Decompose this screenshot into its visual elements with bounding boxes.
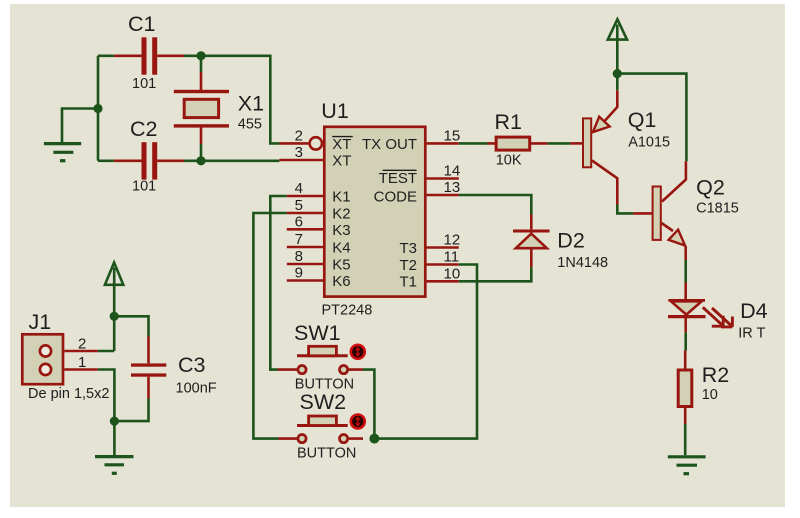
crystal X1 xyxy=(174,72,229,144)
svg-text:10K: 10K xyxy=(496,153,522,169)
wire Q2 emitter to D4 xyxy=(684,260,687,283)
svg-text:K2: K2 xyxy=(332,206,350,223)
junction node C1/X1 top xyxy=(196,51,205,60)
svg-text:10: 10 xyxy=(444,265,461,282)
svg-text:455: 455 xyxy=(238,116,262,132)
svg-text:10: 10 xyxy=(702,387,718,403)
svg-text:TX OUT: TX OUT xyxy=(362,136,417,153)
svg-text:K3: K3 xyxy=(332,222,350,239)
junction node VCC J1 xyxy=(110,312,119,321)
svg-text:8: 8 xyxy=(295,248,303,265)
wire R2 to ground right xyxy=(684,424,687,455)
svg-text:D4: D4 xyxy=(740,299,768,323)
svg-text:7: 7 xyxy=(295,231,303,248)
svg-text:T3: T3 xyxy=(399,240,417,257)
junction node SW2 right xyxy=(369,434,379,444)
svg-text:K1: K1 xyxy=(332,189,350,206)
junction node ground left xyxy=(93,104,102,113)
wire VCC junction to Q2 collector xyxy=(617,74,686,162)
wire R1 to Q1 base xyxy=(547,142,570,145)
wire to C1 left xyxy=(98,54,114,57)
svg-text:Q1: Q1 xyxy=(628,108,657,132)
svg-text:15: 15 xyxy=(444,127,461,144)
svg-text:CODE: CODE xyxy=(374,189,417,206)
svg-text:T2: T2 xyxy=(399,257,417,274)
svg-text:101: 101 xyxy=(132,179,156,195)
svg-text:SW1: SW1 xyxy=(294,321,341,345)
svg-text:IR T: IR T xyxy=(738,325,765,341)
wire D2 bottom to U1 pin 10 xyxy=(459,267,532,281)
svg-text:C2: C2 xyxy=(130,117,157,141)
LED D4 IR xyxy=(668,283,732,333)
wire ground-net left vertical xyxy=(97,56,100,161)
svg-text:11: 11 xyxy=(444,249,460,266)
svg-text:5: 5 xyxy=(295,197,303,214)
connector J1 xyxy=(22,334,98,384)
U1 pin numbers xyxy=(295,127,461,282)
wire C3 bottom to ground junction xyxy=(114,399,148,422)
wire J1 pin 2 green xyxy=(98,350,114,353)
svg-text:2: 2 xyxy=(295,127,303,144)
wire SW2 junction to U1 pin 11 xyxy=(374,265,477,439)
wire J1 pin 1 to ground junction xyxy=(98,370,115,422)
transistor Q2 C1815 NPN xyxy=(633,161,686,260)
wire CODE pin 13 to D2 top xyxy=(459,195,532,215)
svg-text:U1: U1 xyxy=(321,99,348,123)
svg-text:101: 101 xyxy=(132,76,156,92)
ground symbol left xyxy=(44,144,81,161)
wire VCC junction to Q1 emitter xyxy=(616,74,619,91)
svg-text:6: 6 xyxy=(295,213,303,230)
U1 pin names xyxy=(332,136,417,291)
svg-text:XT: XT xyxy=(332,153,351,170)
wire X1 top stub xyxy=(200,56,203,72)
svg-text:C1: C1 xyxy=(128,12,155,36)
svg-text:1N4148: 1N4148 xyxy=(557,255,608,271)
wire VCC2 junction to C3 top xyxy=(114,316,148,336)
svg-text:SW2: SW2 xyxy=(300,390,347,414)
capacitor C2 xyxy=(114,142,184,179)
diode D2 1N4148 xyxy=(513,215,550,268)
switch SW1 BUTTON xyxy=(278,345,365,374)
junction node C2/X1 bottom xyxy=(196,156,205,165)
svg-text:4: 4 xyxy=(295,180,303,197)
svg-text:C1815: C1815 xyxy=(696,201,739,217)
svg-text:R2: R2 xyxy=(702,363,729,387)
svg-text:J1: J1 xyxy=(29,310,52,334)
svg-text:3: 3 xyxy=(295,144,303,161)
svg-text:100nF: 100nF xyxy=(176,380,217,396)
wire to C2 left xyxy=(98,160,114,163)
svg-text:K4: K4 xyxy=(332,240,350,257)
wire SW1 right down to junction xyxy=(363,370,374,439)
wire D4 to R2 xyxy=(684,332,687,350)
svg-text:X1: X1 xyxy=(238,92,264,116)
resistor R1 xyxy=(488,137,548,150)
wire node OSC1: C1 right to U1 pin 2 xyxy=(184,56,279,144)
IC U1 PT2248 xyxy=(279,127,458,297)
ground symbol right xyxy=(668,457,706,474)
wire K1 to SW1 xyxy=(270,196,287,370)
svg-text:1: 1 xyxy=(78,354,86,371)
svg-text:2: 2 xyxy=(78,335,86,352)
wire VCC2 arrow to junction and J1 pin 2 xyxy=(113,268,116,352)
wire node OSC2: C2 right to U1 pin 3 xyxy=(184,160,279,163)
svg-text:D2: D2 xyxy=(557,229,584,253)
wire junction to GND symbol J1 xyxy=(113,421,116,455)
svg-text:K5: K5 xyxy=(332,257,350,274)
switch SW2 BUTTON xyxy=(279,415,365,443)
capacitor C3 xyxy=(131,337,166,399)
svg-text:12: 12 xyxy=(444,232,461,249)
svg-text:T1: T1 xyxy=(399,274,417,291)
svg-text:C3: C3 xyxy=(178,353,206,377)
svg-text:13: 13 xyxy=(444,179,461,196)
wire K2 to SW2 xyxy=(253,213,286,439)
svg-text:BUTTON: BUTTON xyxy=(297,445,356,461)
junction node ground J1 xyxy=(110,417,119,426)
svg-text:TEST: TEST xyxy=(379,170,417,187)
power symbol VCC right xyxy=(608,19,627,39)
svg-text:PT2248: PT2248 xyxy=(322,302,373,318)
svg-text:9: 9 xyxy=(295,265,303,282)
svg-text:Q2: Q2 xyxy=(696,176,725,200)
wire TX OUT to R1 xyxy=(459,142,488,145)
capacitor C1 xyxy=(114,37,184,74)
wire VCC arrow down to junction xyxy=(616,25,619,74)
transistor Q1 A1015 PNP xyxy=(570,90,617,204)
junction node VCC right xyxy=(613,69,622,78)
svg-text:XT: XT xyxy=(332,136,351,153)
ground symbol J1 xyxy=(95,457,134,474)
svg-text:K6: K6 xyxy=(332,273,350,290)
svg-text:R1: R1 xyxy=(495,110,522,134)
power symbol VCC J1 xyxy=(105,263,123,285)
wire X1 bottom stub xyxy=(200,144,203,161)
svg-text:A1015: A1015 xyxy=(628,135,670,151)
svg-text:De pin 1,5x2: De pin 1,5x2 xyxy=(28,386,109,402)
resistor R2 xyxy=(678,351,692,425)
wire ground branch to GND symbol xyxy=(62,109,98,143)
wire Q1 collector to Q2 base xyxy=(617,205,633,214)
svg-text:14: 14 xyxy=(444,163,461,180)
